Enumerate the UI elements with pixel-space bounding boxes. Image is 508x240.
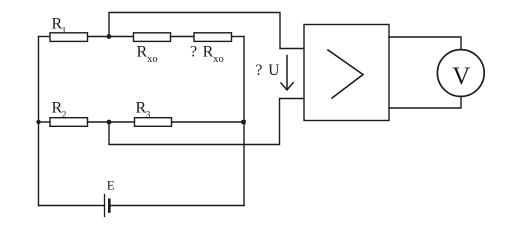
node left junction dot bbox=[36, 120, 40, 124]
resistor R1 bbox=[50, 33, 88, 42]
amplifier gain symbol bbox=[328, 50, 363, 98]
wire R3 to right column bbox=[172, 121, 245, 123]
resistor Rxo bbox=[134, 33, 171, 42]
wire right column bbox=[243, 37, 245, 206]
wire node B down to amp lower input bbox=[109, 99, 304, 145]
svg-text:?U: ?U bbox=[256, 62, 280, 79]
svg-text:Rxo: Rxo bbox=[137, 44, 158, 66]
wire top row y=36.5 bbox=[39, 36, 51, 38]
node B junction dot bbox=[107, 120, 112, 125]
wire bottom row left of battery bbox=[39, 205, 105, 207]
svg-text:?Rxo: ?Rxo bbox=[190, 44, 224, 66]
wire R2 to node B bbox=[88, 121, 135, 123]
battery E plate short bbox=[108, 200, 111, 212]
node right square junction bbox=[241, 120, 245, 124]
resistor ?Rxo bbox=[194, 33, 232, 42]
voltmeter V bbox=[437, 50, 484, 97]
wire middle row y=122 bbox=[39, 121, 51, 123]
node A junction dot bbox=[107, 34, 112, 39]
amplifier box bbox=[304, 25, 389, 121]
wire amp output bottom bbox=[389, 97, 461, 109]
wire bottom row right of battery bbox=[110, 205, 244, 207]
resistor R3 bbox=[135, 118, 172, 127]
battery E plate long bbox=[104, 195, 106, 217]
wire left column bbox=[38, 37, 40, 206]
wire amp output top bbox=[389, 37, 461, 50]
resistor R2 bbox=[50, 118, 88, 127]
svg-text:V: V bbox=[452, 63, 470, 90]
arrow ?U bbox=[281, 56, 293, 91]
wire R1 to node A bbox=[88, 36, 134, 38]
wire Rxo to Rxo2 bbox=[171, 36, 195, 38]
wire top link from node A to amp input bbox=[109, 13, 304, 49]
wire Rxo2 to right column bbox=[232, 36, 245, 38]
svg-text:E: E bbox=[107, 178, 115, 193]
